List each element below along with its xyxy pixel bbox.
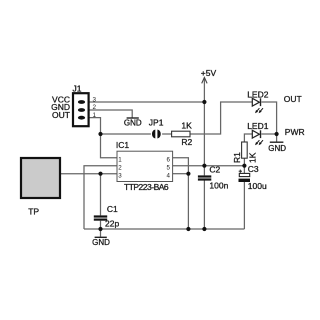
capacitor C1: [94, 215, 107, 220]
junction node C1/rail: [98, 227, 102, 231]
junction node pin4-rail: [186, 227, 190, 231]
svg-text:100u: 100u: [248, 181, 267, 191]
svg-text:IC1: IC1: [116, 140, 129, 150]
svg-text:TTP223-BA6: TTP223-BA6: [124, 182, 169, 192]
wire LED1 cathode to PWR node: [261, 133, 276, 135]
LED2: [252, 98, 263, 113]
wire C3 top node down to plate: [243, 166, 245, 174]
wire TP to IC pin3: [60, 173, 117, 175]
svg-text:PWR: PWR: [285, 127, 305, 137]
wire C1 bottom to rail: [100, 221, 102, 229]
wire J1 pin2 to GND symbol: [89, 110, 132, 118]
touch pad TP: [21, 158, 60, 198]
svg-text:+5V: +5V: [201, 68, 217, 78]
connector J1: [73, 93, 89, 126]
svg-text:R1: R1: [232, 152, 242, 163]
ground symbol GND (LED cathodes): [268, 134, 286, 153]
svg-text:TP: TP: [28, 206, 39, 216]
wire R2 right up and over to LED2 anode: [190, 102, 252, 134]
jumper JP1: [152, 130, 161, 139]
junction node VDD/C2: [202, 164, 206, 168]
junction node C2/rail: [202, 227, 206, 231]
wire IC pin2 left and down to rail: [84, 166, 117, 229]
wire R1 bottom to VDD node: [243, 158, 245, 166]
svg-text:LED1: LED1: [247, 121, 269, 131]
svg-text:C2: C2: [209, 164, 220, 174]
svg-text:J1: J1: [73, 84, 82, 94]
svg-text:C3: C3: [248, 164, 259, 174]
wire J1 pin3 to +5V junction: [89, 101, 204, 103]
junction node PWR/GND: [275, 132, 279, 136]
resistor R2: [172, 131, 190, 137]
wire +5V vertical down to C2: [203, 78, 205, 176]
wire LED2 cathode to OUT corner down to PWR node: [261, 102, 276, 134]
wire IC pin6 over and down to pin4 node: [173, 158, 189, 174]
ground symbol GND (near J1): [124, 118, 142, 127]
svg-text:3: 3: [118, 172, 122, 179]
LED1: [252, 130, 263, 145]
svg-text:2: 2: [118, 164, 122, 171]
junction node J1.1/JP1: [98, 132, 102, 136]
wire C2 bottom to ground rail: [203, 181, 205, 230]
svg-text:GND: GND: [92, 238, 110, 247]
ground symbol GND (below C1): [92, 229, 110, 247]
svg-text:JP1: JP1: [149, 117, 164, 127]
capacitor C2: [198, 175, 211, 180]
svg-text:1K: 1K: [248, 152, 258, 163]
wire touch node down to C1: [100, 174, 102, 216]
wire pin4/6 node down to rail: [187, 174, 189, 229]
svg-text:2: 2: [93, 104, 97, 111]
svg-text:3: 3: [93, 96, 97, 103]
svg-text:22p: 22p: [105, 218, 119, 228]
svg-text:C1: C1: [107, 204, 118, 214]
resistor R1: [242, 142, 248, 158]
svg-text:GND: GND: [268, 144, 286, 153]
wire J1 pin1 down to JP1 row and IC pin1: [89, 118, 117, 158]
wire ground rail: [84, 228, 244, 230]
svg-text:OUT: OUT: [284, 94, 302, 104]
svg-text:1K: 1K: [181, 120, 192, 130]
svg-text:LED2: LED2: [247, 89, 269, 99]
power +5V symbol: [202, 78, 207, 84]
wire IC pin4 to node: [173, 173, 189, 175]
junction node touch/C1: [98, 172, 102, 176]
wire C3 bottom to rail corner: [243, 182, 245, 229]
IC U1 TTP223 box: [117, 151, 173, 181]
svg-text:1: 1: [93, 112, 97, 119]
svg-text:R2: R2: [181, 137, 192, 147]
svg-text:4: 4: [167, 172, 171, 179]
junction node R1/C3: [242, 164, 246, 168]
svg-text:GND: GND: [124, 118, 142, 127]
svg-text:6: 6: [167, 156, 171, 163]
wire JP1 row: node to JP1: [101, 133, 151, 135]
wire R1 top to LED1 anode: [244, 134, 252, 142]
junction node +5V: [202, 100, 206, 104]
svg-text:OUT: OUT: [52, 110, 70, 120]
svg-text:1: 1: [118, 156, 122, 163]
svg-text:5: 5: [167, 164, 171, 171]
capacitor C3 (polarized): [239, 170, 251, 182]
junction node pin4/6: [186, 172, 190, 176]
wire IC pin5 VDD row to C3/R1 node: [173, 165, 245, 167]
svg-text:100n: 100n: [209, 181, 228, 191]
wire JP1 to R2: [162, 133, 172, 135]
